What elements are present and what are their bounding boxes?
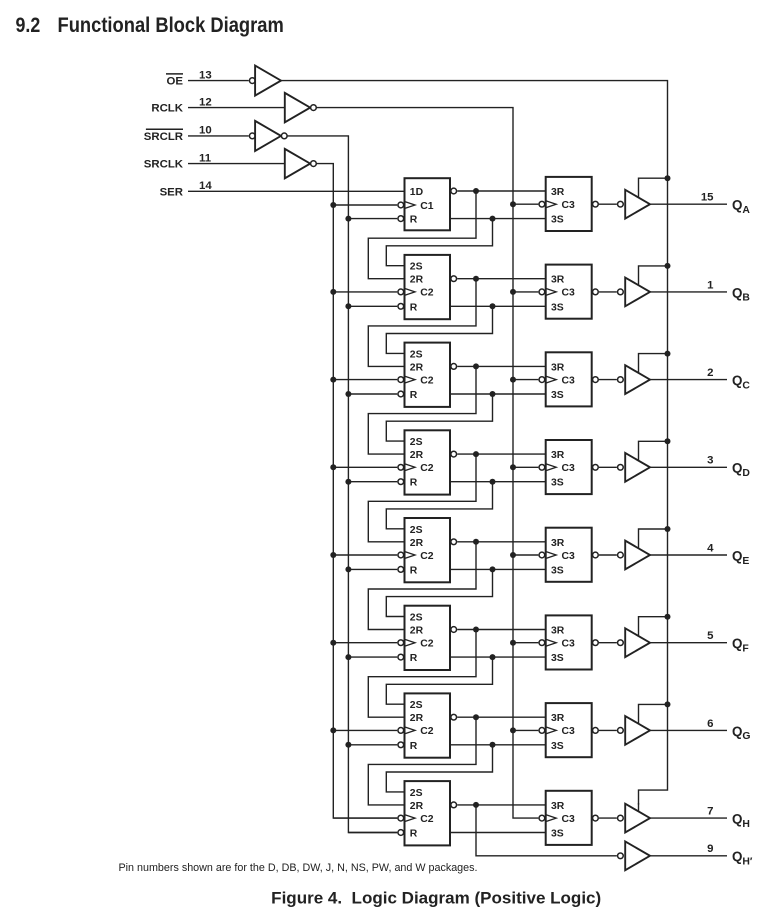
wire FF6 output to FF7 input 2S xyxy=(386,657,492,704)
wire SRCLK bus to FF7 clock xyxy=(333,729,397,731)
wire SRCLR bus to FF6 reset R xyxy=(348,656,397,658)
svg-text:Functional Block Diagram: Functional Block Diagram xyxy=(58,13,284,37)
buffer U2 (RCLK) with output bubble xyxy=(285,93,317,122)
junction OE bus / QE enable xyxy=(665,526,671,532)
wire/bus OE from U1 to output buffer enables (right side vertical) xyxy=(281,81,668,805)
wire FF7 output to FF8 input 2S xyxy=(386,745,492,792)
wire RCLK bus to latch L1 clock C3 xyxy=(513,203,538,205)
svg-text:C2: C2 xyxy=(420,639,434,650)
wire FF2 output to FF3 input 2S xyxy=(386,306,492,353)
svg-text:6: 6 xyxy=(707,718,713,730)
latch L5 (storage register stage 5: 3R, C3, 3S) xyxy=(539,528,598,582)
latch L6 (storage register stage 6: 3R, C3, 3S) xyxy=(539,615,598,669)
junction on FF2 output xyxy=(490,303,496,309)
svg-text:2R: 2R xyxy=(410,538,424,549)
svg-text:R: R xyxy=(410,215,418,226)
svg-text:2S: 2S xyxy=(410,788,423,799)
svg-text:Figure 4. Logic Diagram (Posi: Figure 4. Logic Diagram (Positive Logic) xyxy=(271,888,601,907)
svg-text:RCLK: RCLK xyxy=(151,103,183,115)
junction on FF2 inverted output xyxy=(473,276,479,282)
flip-flop FF8 (shift register stage 8: 2S, 2R, C2, R) xyxy=(398,781,457,845)
wire SRCLK bus to FF6 clock xyxy=(333,642,397,644)
svg-text:C1: C1 xyxy=(420,201,434,212)
svg-text:7: 7 xyxy=(707,806,713,818)
flip-flop FF3 (shift register stage 3: 2S, 2R, C2, R) xyxy=(398,343,457,407)
wire SRCLR bus to FF3 reset R xyxy=(348,393,397,395)
svg-text:11: 11 xyxy=(199,152,212,164)
wire output QF, pin 5 xyxy=(650,642,727,644)
svg-text:3S: 3S xyxy=(551,565,564,576)
svg-text:C3: C3 xyxy=(562,814,576,825)
net SRCLK input label, pin 11 xyxy=(144,152,212,170)
wire RCLK bus to latch L2 clock C3 xyxy=(513,291,538,293)
svg-text:3R: 3R xyxy=(551,713,565,724)
wire FF6 inverted output to latch L6 input 3R xyxy=(457,629,545,631)
junction OE bus / QF enable xyxy=(665,614,671,620)
wire FF3 inverted output to FF4 input 2R xyxy=(368,366,476,454)
svg-text:2S: 2S xyxy=(410,437,423,448)
junction SRCLK bus / FF2 clock xyxy=(330,289,336,295)
svg-text:R: R xyxy=(410,302,418,313)
junction on FF5 output xyxy=(490,566,496,572)
3-state output buffer QH with input bubble xyxy=(618,804,650,833)
wire FF5 inverted output to FF6 input 2R xyxy=(368,542,476,630)
junction OE bus / QD enable xyxy=(665,438,671,444)
svg-text:2R: 2R xyxy=(410,450,424,461)
wire FF1 output to FF2 input 2S xyxy=(386,219,492,266)
junction SRCLK bus / FF1 clock xyxy=(330,202,336,208)
wire OE label to inverter U1 xyxy=(188,80,249,82)
junction SRCLK bus / FF5 clock xyxy=(330,552,336,558)
latch L2 (storage register stage 2: 3R, C3, 3S) xyxy=(539,265,598,319)
flip-flop FF4 (shift register stage 4: 2S, 2R, C2, R) xyxy=(398,430,457,494)
svg-text:3S: 3S xyxy=(551,741,564,752)
svg-text:R: R xyxy=(410,653,418,664)
junction SRCLK bus / FF4 clock xyxy=(330,464,336,470)
svg-text:3S: 3S xyxy=(551,478,564,489)
svg-text:2R: 2R xyxy=(410,801,424,812)
wire FF5 output to latch L5 input 3S xyxy=(450,568,546,570)
junction RCLK bus / latch L3 clock xyxy=(510,377,516,383)
wire FF2 inverted output to latch L2 input 3R xyxy=(457,278,545,280)
wire SRCLK bus to FF3 clock xyxy=(333,379,397,381)
inverter U3 (SRCLR) with input and output bubbles xyxy=(249,121,287,151)
junction SRCLR bus / FF4 reset xyxy=(345,479,351,485)
wire FF2 output to latch L2 input 3S xyxy=(450,305,546,307)
svg-text:R: R xyxy=(410,478,418,489)
wire output QD, pin 3 xyxy=(650,466,727,468)
wire FF1 inverted output to latch L1 input 3R xyxy=(457,190,545,192)
latch L1 (storage register stage 1: 3R, C3, 3S) xyxy=(539,177,598,231)
wire enable stub buffer QD to OE bus xyxy=(639,441,668,461)
svg-text:2S: 2S xyxy=(410,613,423,624)
inverter U1 (OE) with input bubble xyxy=(249,66,281,96)
svg-text:9.2: 9.2 xyxy=(16,13,41,37)
junction on FF4 output xyxy=(490,479,496,485)
svg-text:2R: 2R xyxy=(410,275,424,286)
svg-text:3S: 3S xyxy=(551,829,564,840)
svg-text:C3: C3 xyxy=(562,200,576,211)
junction SRCLR bus / FF7 reset xyxy=(345,742,351,748)
svg-text:C2: C2 xyxy=(420,551,434,562)
junction on FF4 inverted output xyxy=(473,451,479,457)
wire SRCLR bus to FF2 reset R xyxy=(348,305,397,307)
flip-flop FF5 (shift register stage 5: 2S, 2R, C2, R) xyxy=(398,518,457,582)
wire latch L6 output to buffer xyxy=(599,642,617,644)
svg-text:2S: 2S xyxy=(410,525,423,536)
svg-text:10: 10 xyxy=(199,125,212,137)
svg-text:R: R xyxy=(410,565,418,576)
svg-text:3S: 3S xyxy=(551,653,564,664)
junction on FF7 inverted output xyxy=(473,714,479,720)
wire output QC, pin 2 xyxy=(650,379,727,381)
3-state output buffer QG with input bubble xyxy=(618,716,650,745)
svg-text:3R: 3R xyxy=(551,538,565,549)
junction SRCLR bus / FF1 reset xyxy=(345,216,351,222)
svg-text:2S: 2S xyxy=(410,349,423,360)
wire FF4 inverted output to latch L4 input 3R xyxy=(457,453,545,455)
svg-text:C2: C2 xyxy=(420,375,434,386)
wire/bus SRCLK from U4 down to register clocks C1/C2 xyxy=(317,164,398,819)
svg-text:2R: 2R xyxy=(410,362,424,373)
wire latch L3 output to buffer xyxy=(599,379,617,381)
flip-flop FF2 (shift register stage 2: 2S, 2R, C2, R) xyxy=(398,255,457,319)
svg-text:C3: C3 xyxy=(562,639,576,650)
svg-text:C3: C3 xyxy=(562,288,576,299)
junction OE bus / QA enable xyxy=(665,175,671,181)
wire enable stub buffer QH (end of OE bus) xyxy=(638,803,640,812)
wire FF5 inverted output to latch L5 input 3R xyxy=(457,541,545,543)
svg-text:C2: C2 xyxy=(420,288,434,299)
wire RCLK label to buffer U2 xyxy=(188,107,285,109)
wire enable stub buffer QG to OE bus xyxy=(639,704,668,724)
junction on FF8 inverted output xyxy=(473,802,479,808)
wire output QB, pin 1 xyxy=(650,291,727,293)
junction RCLK bus / latch L6 clock xyxy=(510,640,516,646)
junction SRCLK bus / FF6 clock xyxy=(330,640,336,646)
svg-text:13: 13 xyxy=(199,69,212,81)
svg-text:4: 4 xyxy=(707,542,714,554)
3-state output buffer QD with input bubble xyxy=(618,453,650,482)
svg-text:C2: C2 xyxy=(420,726,434,737)
svg-text:3S: 3S xyxy=(551,302,564,313)
wire RCLK bus to latch L6 clock C3 xyxy=(513,642,538,644)
svg-text:C3: C3 xyxy=(562,463,576,474)
latch L3 (storage register stage 3: 3R, C3, 3S) xyxy=(539,352,598,406)
svg-text:3R: 3R xyxy=(551,187,565,198)
wire enable stub buffer QA to OE bus xyxy=(639,178,668,198)
wire latch L2 output to buffer xyxy=(599,291,617,293)
output buffer QH' (serial out, always enabled) xyxy=(618,841,650,870)
svg-text:2S: 2S xyxy=(410,700,423,711)
junction OE bus / QG enable xyxy=(665,701,671,707)
wire SRCLK bus to FF8 clock xyxy=(333,817,397,819)
svg-text:C3: C3 xyxy=(562,551,576,562)
wire FF8 inverted output down to QH' buffer xyxy=(476,805,617,856)
flip-flop FF1 (shift register stage 1: 1D, C1, R) xyxy=(398,178,457,230)
svg-text:OE: OE xyxy=(167,76,184,88)
net SRCLR input label, pin 10 xyxy=(144,125,212,143)
svg-text:C2: C2 xyxy=(420,463,434,474)
wire FF3 output to FF4 input 2S xyxy=(386,394,492,441)
wire latch L4 output to buffer xyxy=(599,466,617,468)
3-state output buffer QB with input bubble xyxy=(618,278,650,307)
svg-text:C3: C3 xyxy=(562,375,576,386)
junction OE bus / QC enable xyxy=(665,351,671,357)
wire SRCLK bus to FF4 clock xyxy=(333,466,397,468)
junction RCLK bus / latch L4 clock xyxy=(510,464,516,470)
svg-text:2S: 2S xyxy=(410,262,423,273)
latch L7 (storage register stage 7: 3R, C3, 3S) xyxy=(539,703,598,757)
wire SRCLR bus to FF5 reset R xyxy=(348,568,397,570)
svg-text:3R: 3R xyxy=(551,626,565,637)
wire FF4 output to FF5 input 2S xyxy=(386,482,492,529)
svg-text:2R: 2R xyxy=(410,713,424,724)
wire FF7 inverted output to FF8 input 2R xyxy=(368,717,476,805)
flip-flop FF6 (shift register stage 6: 2S, 2R, C2, R) xyxy=(398,606,457,670)
svg-text:3S: 3S xyxy=(551,390,564,401)
svg-text:3: 3 xyxy=(707,455,713,467)
svg-text:3R: 3R xyxy=(551,450,565,461)
wire FF5 output to FF6 input 2S xyxy=(386,569,492,616)
wire SRCLR bus to FF4 reset R xyxy=(348,481,397,483)
junction on FF3 output xyxy=(490,391,496,397)
wire SRCLK label to buffer U4 xyxy=(188,163,285,165)
latch L8 (storage register stage 8: 3R, C3, 3S) xyxy=(539,791,598,845)
svg-text:9: 9 xyxy=(707,843,713,855)
junction on FF5 inverted output xyxy=(473,539,479,545)
wire FF2 inverted output to FF3 input 2R xyxy=(368,279,476,367)
3-state output buffer QE with input bubble xyxy=(618,541,650,570)
svg-text:1: 1 xyxy=(707,279,714,291)
wire output QE, pin 4 xyxy=(650,554,727,556)
junction on FF6 inverted output xyxy=(473,627,479,633)
3-state output buffer QF with input bubble xyxy=(618,628,650,657)
svg-text:12: 12 xyxy=(199,96,212,108)
wire FF8 inverted output to latch L8 input 3R xyxy=(457,804,545,806)
wire enable stub buffer QB to OE bus xyxy=(639,266,668,286)
wire/bus SRCLR from U3 down to register resets R xyxy=(288,136,398,833)
wire latch L1 output to buffer xyxy=(599,203,617,205)
wire FF1 output to latch L1 input 3S xyxy=(450,218,546,220)
junction on FF1 output xyxy=(490,216,496,222)
wire output QA, pin 15 xyxy=(650,203,727,205)
svg-text:Pin numbers shown are for the: Pin numbers shown are for the D, DB, DW,… xyxy=(119,862,478,874)
flip-flop FF7 (shift register stage 7: 2S, 2R, C2, R) xyxy=(398,693,457,757)
wire FF1 inverted output to FF2 input 2R xyxy=(368,191,476,279)
svg-text:3R: 3R xyxy=(551,362,565,373)
net RCLK input label, pin 12 xyxy=(151,96,211,114)
svg-text:15: 15 xyxy=(701,192,714,204)
wire output QH, pin 7 xyxy=(650,817,727,819)
3-state output buffer QA with input bubble xyxy=(618,190,650,219)
svg-text:SER: SER xyxy=(160,186,183,198)
svg-text:R: R xyxy=(410,829,418,840)
junction OE bus / QB enable xyxy=(665,263,671,269)
heading: 9.2 Functional Block Diagram xyxy=(16,13,284,37)
wire FF3 output to latch L3 input 3S xyxy=(450,393,546,395)
svg-text:5: 5 xyxy=(707,630,714,642)
wire latch L7 output to buffer xyxy=(599,729,617,731)
wire SRCLR bus to FF7 reset R xyxy=(348,744,397,746)
wire SRCLK bus to FF1 clock xyxy=(333,204,397,206)
wire FF6 inverted output to FF7 input 2R xyxy=(368,630,476,718)
svg-text:R: R xyxy=(410,741,418,752)
junction RCLK bus / latch L1 clock xyxy=(510,201,516,207)
wire/bus RCLK from U2 down to latch clocks C3 xyxy=(317,108,539,819)
wire enable stub buffer QF to OE bus xyxy=(639,617,668,637)
wire SER to FF1 input 1D xyxy=(188,190,405,192)
svg-text:C3: C3 xyxy=(562,726,576,737)
wire RCLK bus to latch L5 clock C3 xyxy=(513,554,538,556)
svg-text:1D: 1D xyxy=(410,187,424,198)
svg-text:2: 2 xyxy=(707,367,713,379)
wire SRCLR bus to FF1 reset R xyxy=(348,218,397,220)
wire output QG, pin 6 xyxy=(650,729,727,731)
junction SRCLK bus / FF7 clock xyxy=(330,727,336,733)
3-state output buffer QC with input bubble xyxy=(618,365,650,394)
svg-text:3R: 3R xyxy=(551,801,565,812)
junction on FF1 inverted output xyxy=(473,188,479,194)
net OE input label, pin 13 xyxy=(166,69,212,87)
wire FF4 inverted output to FF5 input 2R xyxy=(368,454,476,542)
junction SRCLR bus / FF6 reset xyxy=(345,654,351,660)
junction RCLK bus / latch L5 clock xyxy=(510,552,516,558)
junction on FF6 output xyxy=(490,654,496,660)
junction on FF7 output xyxy=(490,742,496,748)
wire SRCLR label to inverter U3 xyxy=(188,135,249,137)
wire FF7 inverted output to latch L7 input 3R xyxy=(457,716,545,718)
wire FF3 inverted output to latch L3 input 3R xyxy=(457,365,545,367)
junction SRCLR bus / FF2 reset xyxy=(345,303,351,309)
junction SRCLR bus / FF5 reset xyxy=(345,566,351,572)
junction SRCLR bus / FF3 reset xyxy=(345,391,351,397)
wire FF8 output to latch L8 input 3S xyxy=(450,832,546,834)
svg-text:R: R xyxy=(410,390,418,401)
svg-text:C2: C2 xyxy=(420,814,434,825)
junction RCLK bus / latch L2 clock xyxy=(510,289,516,295)
wire RCLK bus to latch L3 clock C3 xyxy=(513,379,538,381)
svg-text:SRCLK: SRCLK xyxy=(144,159,184,171)
wire SRCLR bus to FF8 reset R xyxy=(348,832,397,834)
wire latch L8 output to buffer xyxy=(599,817,617,819)
wire enable stub buffer QE to OE bus xyxy=(639,529,668,549)
wire SRCLK bus to FF5 clock xyxy=(333,554,397,556)
junction RCLK bus / latch L7 clock xyxy=(510,727,516,733)
wire SRCLK bus to FF2 clock xyxy=(333,291,397,293)
svg-text:3R: 3R xyxy=(551,275,565,286)
wire latch L5 output to buffer xyxy=(599,554,617,556)
wire output QH', pin 9 xyxy=(650,855,727,857)
svg-text:2R: 2R xyxy=(410,626,424,637)
svg-text:14: 14 xyxy=(199,180,212,192)
latch L4 (storage register stage 4: 3R, C3, 3S) xyxy=(539,440,598,494)
svg-text:3S: 3S xyxy=(551,215,564,226)
wire FF6 output to latch L6 input 3S xyxy=(450,656,546,658)
wire FF7 output to latch L7 input 3S xyxy=(450,744,546,746)
wire FF4 output to latch L4 input 3S xyxy=(450,481,546,483)
net SER input label, pin 14 xyxy=(160,180,213,198)
buffer U4 (SRCLK) with output bubble xyxy=(285,149,317,178)
junction SRCLK bus / FF3 clock xyxy=(330,377,336,383)
wire RCLK bus to latch L4 clock C3 xyxy=(513,466,538,468)
wire enable stub buffer QC to OE bus xyxy=(639,354,668,374)
wire RCLK bus to latch L7 clock C3 xyxy=(513,729,538,731)
svg-text:SRCLR: SRCLR xyxy=(144,131,183,143)
junction on FF3 inverted output xyxy=(473,363,479,369)
